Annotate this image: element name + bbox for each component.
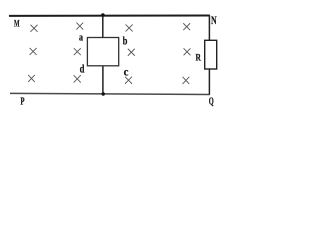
svg-text:M: M [14, 19, 20, 30]
svg-text:Q: Q [209, 96, 214, 108]
svg-text:b: b [123, 34, 128, 48]
svg-text:P: P [20, 96, 24, 108]
svg-text:N: N [211, 15, 217, 27]
svg-text:c: c [124, 66, 129, 78]
svg-text:a: a [79, 33, 83, 44]
svg-text:d: d [80, 62, 85, 76]
svg-text:R: R [196, 54, 201, 64]
